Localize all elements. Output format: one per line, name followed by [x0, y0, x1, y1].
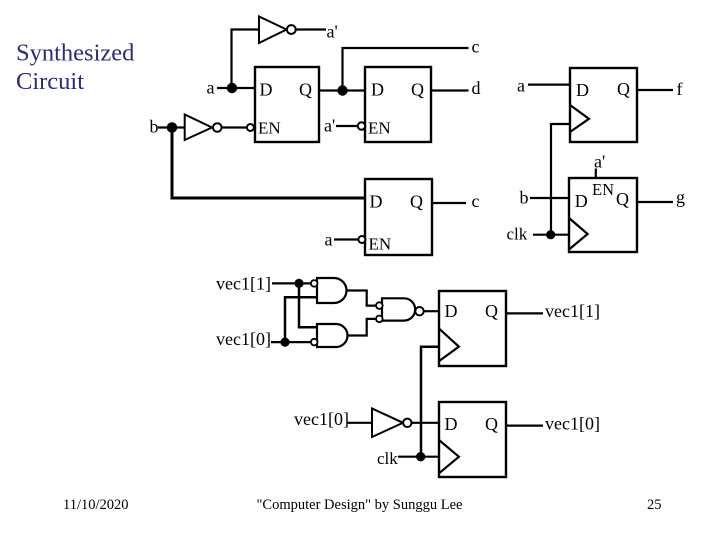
- wire a to FF1 D: [528, 83, 570, 85]
- FF1 clock wedge: [570, 105, 589, 132]
- wire node to c (top): [343, 48, 469, 91]
- svg-text:vec1[0]: vec1[0]: [216, 329, 271, 349]
- latch L3 box: [365, 179, 432, 255]
- flip-flop FF2 box: [569, 178, 637, 252]
- wire clk to FF2 clock: [533, 234, 569, 236]
- wire a' to L2 EN: [336, 125, 358, 127]
- inverter IV2 (b): [185, 115, 222, 141]
- L3 EN bubble: [358, 236, 365, 243]
- G1 top input bubble: [311, 280, 318, 287]
- wire IV1 input from node a: [232, 30, 260, 89]
- wire FF1 Q to f: [637, 89, 673, 91]
- flip-flop FF4 box: [439, 402, 506, 477]
- wire IV2 output to L1 EN: [221, 126, 247, 128]
- FF4 clock wedge: [439, 440, 459, 473]
- node clk junction (bottom): [416, 452, 425, 461]
- svg-text:a: a: [207, 78, 215, 98]
- FF3 clock wedge: [439, 329, 459, 362]
- wire a to latch L1 D input: [217, 87, 256, 89]
- wire G2 output to G3: [348, 319, 376, 336]
- svg-text:Q: Q: [616, 189, 629, 209]
- svg-text:EN: EN: [368, 119, 391, 138]
- wire IV1 output to a': [296, 28, 326, 30]
- node q1 junction: [337, 85, 347, 95]
- L2 EN bubble: [358, 122, 365, 129]
- gate G1 (AND, inverted top input): [317, 278, 347, 303]
- wire FF1 clock from clk junction: [551, 124, 570, 235]
- latch L2 box: [365, 67, 431, 142]
- svg-text:vec1[0]: vec1[0]: [294, 409, 349, 429]
- svg-text:D: D: [371, 80, 384, 100]
- svg-text:Q: Q: [617, 79, 630, 99]
- latch L1 box: [255, 67, 319, 142]
- G3 bottom input bubble: [376, 316, 383, 323]
- gate G3 (AND, both inputs and output inverted): [382, 298, 415, 320]
- svg-text:EN: EN: [258, 119, 281, 138]
- wire b run down and right to latch L3 D: [172, 128, 365, 199]
- svg-text:"Computer Design" by Sunggu Le: "Computer Design" by Sunggu Lee: [257, 497, 463, 513]
- svg-text:f: f: [677, 79, 683, 99]
- wire vec1[0] branch up to G1: [285, 297, 317, 342]
- svg-text:clk: clk: [377, 449, 398, 468]
- node b junction: [167, 122, 178, 133]
- wire vec1[0] to gate G2: [271, 341, 311, 343]
- inverter IV3 (vec1[0]): [372, 409, 411, 438]
- svg-text:a': a': [324, 116, 335, 136]
- svg-text:Q: Q: [410, 192, 423, 212]
- FF2 clock wedge: [569, 218, 588, 250]
- wire FF3 Q to vec1[1] out: [506, 312, 543, 314]
- wire G1 output to G3: [347, 291, 376, 306]
- G3 output bubble: [415, 307, 423, 315]
- wire vec1[1] branch down to G2: [299, 283, 317, 327]
- gate G2 (AND, inverted bottom input): [317, 324, 348, 347]
- svg-text:vec1[1]: vec1[1]: [216, 274, 271, 294]
- node vec1[1] junction: [294, 279, 303, 288]
- wire L3 Q to c: [432, 202, 466, 204]
- svg-text:a: a: [325, 230, 333, 250]
- wire L1 Q to L2 D: [319, 89, 365, 91]
- svg-text:D: D: [445, 301, 458, 321]
- node a junction: [227, 83, 237, 93]
- svg-text:D: D: [445, 414, 458, 434]
- G2 bottom input bubble: [311, 339, 318, 346]
- svg-text:D: D: [260, 80, 273, 100]
- svg-text:D: D: [575, 191, 588, 211]
- svg-text:c: c: [472, 37, 480, 57]
- node clk junction (top right): [546, 230, 555, 239]
- G3 top input bubble: [376, 302, 383, 309]
- svg-text:EN: EN: [369, 234, 392, 253]
- svg-text:c: c: [472, 191, 480, 211]
- svg-text:Q: Q: [485, 414, 498, 434]
- inverter IV1 (a to a'): [259, 17, 296, 44]
- svg-text:Synthesized: Synthesized: [16, 40, 134, 67]
- svg-text:Q: Q: [411, 80, 424, 100]
- wire FF2 Q to g: [637, 201, 673, 203]
- svg-text:a': a': [327, 22, 338, 42]
- flip-flop FF3 box: [439, 291, 506, 366]
- L1 EN bubble: [247, 124, 254, 131]
- wire vec1[1] to gate G1: [272, 282, 311, 284]
- wire b to inverter IV2: [158, 126, 184, 128]
- svg-text:a: a: [517, 76, 525, 96]
- svg-text:g: g: [676, 187, 685, 207]
- svg-text:Q: Q: [299, 80, 312, 100]
- wire b to FF2 D: [530, 197, 569, 199]
- svg-text:EN: EN: [592, 180, 614, 199]
- svg-text:11/10/2020: 11/10/2020: [63, 497, 129, 513]
- svg-text:clk: clk: [507, 225, 528, 244]
- wire G3 output to FF3 D: [424, 310, 439, 312]
- svg-text:vec1[1]: vec1[1]: [545, 301, 600, 321]
- svg-text:b: b: [520, 188, 529, 208]
- svg-text:Circuit: Circuit: [16, 68, 84, 95]
- svg-text:D: D: [370, 192, 383, 212]
- wire IV3 output to FF4 D: [412, 422, 440, 424]
- svg-text:Q: Q: [485, 301, 498, 321]
- wire L2 Q to d: [431, 89, 469, 91]
- node vec1[0] junction: [280, 338, 289, 347]
- svg-text:vec1[0]: vec1[0]: [545, 414, 600, 434]
- wire a' tick into FF2 top: [595, 169, 597, 179]
- svg-text:25: 25: [647, 497, 662, 513]
- svg-text:b: b: [150, 117, 159, 137]
- wire vec1[0] to inverter IV3: [347, 422, 372, 424]
- wire a to L3 EN: [334, 238, 358, 240]
- svg-text:D: D: [576, 80, 589, 100]
- wire FF3 clock down to clk junction: [421, 347, 439, 457]
- wire clk to FF4 clock: [398, 456, 439, 458]
- flip-flop FF1 box: [570, 68, 637, 142]
- wire FF4 Q to vec1[0] out: [506, 425, 543, 427]
- svg-text:d: d: [472, 78, 481, 98]
